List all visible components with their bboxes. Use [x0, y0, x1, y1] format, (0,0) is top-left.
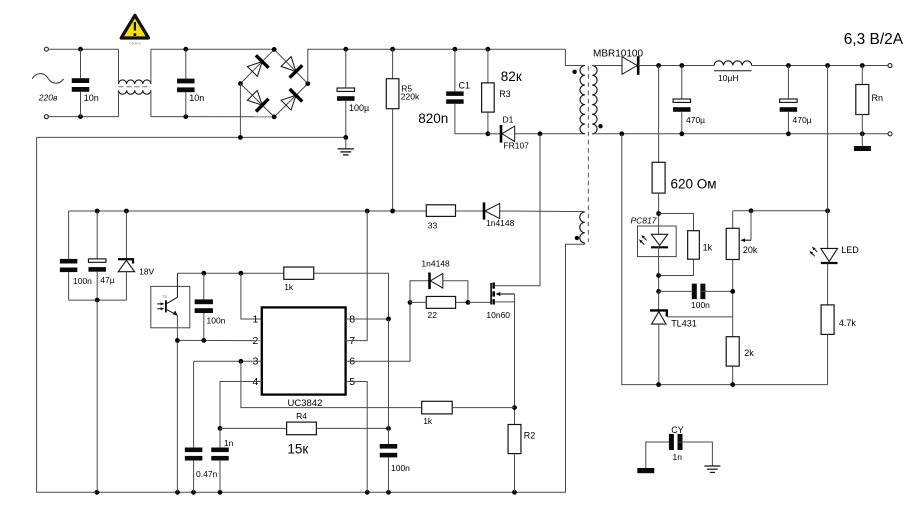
- node bridge left vertex: [238, 81, 243, 86]
- svg-text:1: 1: [252, 313, 258, 325]
- wire 33 to aux diode: [456, 210, 484, 212]
- LED indicator: [821, 248, 838, 261]
- svg-text:100µ: 100µ: [349, 103, 369, 113]
- node drain branch: [538, 131, 543, 136]
- transformer aux phase dot: [575, 236, 579, 240]
- node TL431 cathode / 100n left: [656, 289, 661, 294]
- optocoupler T3 box: [151, 286, 190, 327]
- resistor Rn load: [856, 85, 869, 115]
- resistor 2k: [726, 337, 739, 366]
- wire pin2 line: [177, 339, 261, 341]
- transformer secondary phase dot: [598, 124, 602, 128]
- resistor 1k current sense: [422, 401, 453, 414]
- capacitor 10n input second: [177, 79, 195, 84]
- wire gate lead: [468, 301, 491, 303]
- wire pin4 line: [220, 382, 262, 429]
- node gate network left: [408, 300, 413, 305]
- svg-text:470µ: 470µ: [686, 115, 705, 125]
- wire 620 resistor to opto anode: [658, 193, 660, 234]
- choke core separator dashes: [119, 86, 151, 88]
- capacitor 100n feedback: [692, 284, 697, 300]
- svg-text:C1: C1: [459, 81, 471, 91]
- node C1 snubber top: [453, 47, 458, 52]
- svg-text:1n: 1n: [224, 438, 234, 448]
- wire choke to cap2 top: [151, 48, 274, 50]
- svg-text:0.47n: 0.47n: [196, 469, 218, 479]
- svg-text:R4: R4: [296, 411, 307, 421]
- wire choke bottom-left vertical: [118, 90, 120, 116]
- node gate network right: [466, 300, 471, 305]
- svg-text:1n4148: 1n4148: [421, 259, 450, 269]
- zener diode 18V: [118, 258, 133, 260]
- svg-text:100n: 100n: [391, 463, 410, 473]
- wire zener bottom lead: [125, 272, 127, 300]
- wire vref vertical: [388, 319, 390, 428]
- wire R3 top lead: [487, 49, 489, 83]
- wire output cap2 top lead: [787, 66, 789, 100]
- wire left border and primary ground bottom rail: [37, 137, 585, 492]
- svg-text:Rn: Rn: [872, 93, 884, 103]
- wire CY left lead: [646, 442, 669, 468]
- wire 1k comp to vref corner: [314, 273, 389, 319]
- wire opto LED cathode down: [658, 247, 660, 291]
- node output cap1 top: [679, 63, 684, 68]
- node bottom rail 1n: [218, 490, 223, 495]
- wire TL431 top lead: [658, 291, 660, 309]
- wire 100n left lead: [659, 290, 692, 292]
- wire TL431 ref line: [667, 316, 733, 318]
- resistor R2: [508, 425, 521, 454]
- wire 1n leads: [219, 428, 221, 447]
- node 2k ground: [730, 382, 735, 387]
- node pin2 opto emitter: [175, 338, 180, 343]
- node input cap C top: [78, 47, 83, 52]
- resistor R3 82к: [482, 83, 495, 112]
- resistor 4.7k: [821, 305, 834, 335]
- resistor R5 220k: [386, 79, 399, 109]
- node R4 right junction: [386, 426, 391, 431]
- TL431 shunt regulator: [650, 309, 668, 311]
- node minus rail bulk cap: [343, 135, 348, 140]
- wire bridge right vertex up to plus rail: [308, 49, 566, 83]
- node Rn top: [860, 63, 865, 68]
- wire pin3 to 0.47n: [193, 361, 195, 447]
- svg-text:620 Ом: 620 Ом: [671, 176, 717, 191]
- wire R3 bottom lead: [487, 112, 489, 134]
- capacitor 47µ VCC: [88, 259, 106, 262]
- svg-text:LED: LED: [841, 245, 859, 255]
- svg-text:220в: 220в: [38, 93, 58, 103]
- wire zener top lead: [125, 211, 127, 258]
- node output cap2 top: [786, 63, 791, 68]
- svg-text:1k: 1k: [423, 416, 433, 426]
- wire AC bottom from terminal to choke: [48, 116, 118, 118]
- wire 47µ bottom lead: [96, 272, 98, 300]
- svg-text:FR107: FR107: [503, 141, 529, 151]
- node bridge top vertex: [272, 47, 277, 52]
- node R4 left junction: [218, 426, 223, 431]
- resistor 22 gate: [426, 296, 455, 308]
- svg-text:33: 33: [428, 220, 438, 230]
- wire choke to cap2 bottom: [151, 116, 274, 118]
- wire comp 100n top lead: [203, 273, 205, 299]
- wire gate diode to right branch: [443, 281, 468, 303]
- node bulk cap top: [343, 47, 348, 52]
- svg-text:10n: 10n: [84, 93, 99, 103]
- node output cap2 bottom: [786, 131, 791, 136]
- wire VCC rail horizontal: [69, 210, 427, 212]
- svg-text:TL431: TL431: [671, 318, 697, 328]
- T3 light arrows: [157, 303, 160, 305]
- svg-text:1n4148: 1n4148: [486, 218, 515, 228]
- node VCC 47µ: [95, 209, 100, 214]
- diode MBR10100: [622, 57, 637, 75]
- capacitor 100n comp: [195, 299, 213, 304]
- wire 0.47n bottom lead: [193, 461, 195, 493]
- svg-text:PC817: PC817: [631, 215, 657, 225]
- ground symbol primary: [345, 137, 347, 149]
- node output cap1 bottom: [679, 131, 684, 136]
- wire bridge left vertex down to minus rail: [239, 84, 241, 138]
- svg-text:10µH: 10µH: [718, 73, 739, 83]
- svg-text:T3: T3: [162, 294, 167, 299]
- wire cap2 top lead: [185, 49, 187, 78]
- wire Rn top lead: [861, 66, 863, 85]
- node bottom rail 0.47n: [191, 490, 196, 495]
- wire 100n vref leads: [388, 428, 390, 444]
- LED emission arrows: [815, 249, 818, 252]
- node R3 top: [486, 47, 491, 52]
- wire snubber node to D1: [488, 133, 500, 135]
- svg-text:18V: 18V: [139, 267, 154, 277]
- bridge diode bottom-left: [247, 90, 262, 105]
- svg-text:1k: 1k: [703, 243, 713, 253]
- T3 emitter: [167, 310, 178, 316]
- wire secondary top to MBR diode: [592, 65, 622, 67]
- inductor common-mode choke top winding: [119, 80, 151, 84]
- wire bulk cap top lead: [345, 49, 347, 88]
- wire 1k cs right lead: [452, 407, 514, 409]
- optocoupler PC817 LED box: [638, 226, 677, 257]
- diode 1n4148 aux rectifier: [485, 203, 500, 218]
- wire 1k parallel branch bottom: [659, 259, 694, 275]
- svg-text:47µ: 47µ: [100, 275, 114, 285]
- wire C1 bottom lead to snubber node: [455, 104, 488, 134]
- svg-text:CY: CY: [671, 425, 684, 435]
- diode D1 FR107: [502, 126, 515, 142]
- wire D1 anode to drain node: [515, 133, 585, 135]
- wire R4 line right: [316, 427, 388, 429]
- wire output plus rail left of inductor: [638, 65, 714, 67]
- wire 22 right lead: [456, 301, 468, 303]
- node comp 100n: [201, 271, 206, 276]
- wire 620 branch vertical upper: [658, 66, 660, 163]
- transformer secondary winding: [592, 66, 597, 134]
- svg-text:10n: 10n: [189, 93, 204, 103]
- svg-text:100n: 100n: [207, 316, 226, 326]
- node bottom rail pin5: [365, 490, 370, 495]
- wire source line: [494, 301, 515, 303]
- resistor R4 15к: [287, 422, 317, 435]
- bridge diode top-right: [281, 57, 296, 72]
- svg-text:220k: 220k: [401, 92, 420, 102]
- wire aux winding return: [584, 243, 586, 244]
- node opto anode / 1k branch: [656, 211, 661, 216]
- node vcc ground 47µ: [95, 298, 100, 303]
- node pin2 100n: [201, 338, 206, 343]
- node secondary return branch: [619, 131, 624, 136]
- svg-text:22: 22: [428, 310, 438, 320]
- wire 4.7k bottom lead: [827, 334, 829, 384]
- node minus rail bridge: [238, 135, 243, 140]
- optocoupler PC817 LED: [651, 234, 668, 245]
- wire 2k bottom lead: [732, 366, 734, 385]
- capacitor 100n VCC: [60, 259, 78, 264]
- node opto cathode / 1k bottom: [656, 273, 661, 278]
- svg-text:15к: 15к: [287, 442, 308, 457]
- AC source sine symbol: [32, 74, 63, 84]
- wire pin1 branch down: [241, 273, 262, 319]
- wire pin8 line: [346, 318, 389, 320]
- capacitor 1n timing: [211, 448, 229, 453]
- wire aux diode to aux winding: [500, 210, 585, 213]
- wire 100n VCC bottom lead: [68, 272, 70, 300]
- node VCC R5: [390, 209, 395, 214]
- T3 phototransistor base bar: [165, 300, 167, 312]
- transistor Q1 10n60 gate bar: [490, 283, 492, 305]
- capacitor 100µ bulk electrolytic: [337, 88, 355, 91]
- wire 47µ top lead: [96, 211, 98, 259]
- terminal AC input top: [44, 47, 48, 51]
- wire comp 100n bottom lead: [203, 313, 205, 340]
- capacitor CY 1n: [669, 434, 674, 450]
- svg-text:2k: 2k: [744, 348, 754, 358]
- wire output cap1 top lead: [681, 66, 683, 100]
- node bottom rail opto emitter: [175, 490, 180, 495]
- ground chassis bar CY: [637, 468, 654, 473]
- svg-text:10n60: 10n60: [486, 310, 510, 320]
- wire output cap2 bottom lead: [787, 112, 789, 134]
- wire source vertical to R2: [514, 294, 516, 425]
- potentiometer 20k: [726, 228, 739, 259]
- wire R2 bottom lead: [514, 454, 516, 493]
- wire LED cathode to 4.7k: [827, 263, 829, 305]
- wire feedback ground rail: [622, 134, 828, 385]
- bridge diode top-left: [247, 62, 262, 77]
- svg-text:D1: D1: [503, 115, 514, 125]
- node snubber junction: [486, 131, 491, 136]
- wire LED column upper: [827, 66, 829, 249]
- T3 collector: [167, 273, 178, 303]
- transformer core dashed line: [587, 66, 589, 242]
- terminal output minus: [888, 132, 892, 136]
- node bridge bottom vertex: [272, 115, 277, 120]
- capacitor 10n input first: [72, 78, 90, 83]
- terminal AC input bottom: [44, 115, 48, 119]
- wire choke bottom-right vertical: [150, 90, 152, 116]
- node pot wiper rail: [749, 208, 754, 213]
- svg-text:1n: 1n: [673, 452, 683, 462]
- wire pin3 branch to current sense: [241, 361, 422, 407]
- node 100n right junction: [730, 289, 735, 294]
- node TL431 anode ground: [656, 382, 661, 387]
- wire plus rail corner to primary top: [565, 49, 585, 65]
- Q1 body arrow: [500, 293, 514, 295]
- wire R5 bottom lead to VCC rail: [392, 109, 394, 211]
- wire R5 top lead: [392, 49, 394, 78]
- wire minus rail: [37, 136, 346, 138]
- wire pin3 line: [194, 360, 262, 362]
- svg-text:Caution: Caution: [129, 42, 141, 46]
- svg-text:100n: 100n: [73, 276, 92, 286]
- resistor 620 Ом: [652, 162, 665, 193]
- node VCC pin7 branch: [365, 209, 370, 214]
- svg-text:820n: 820n: [418, 111, 448, 126]
- transistor Q1 channel segments: [492, 283, 495, 289]
- node pin8 vref: [386, 317, 391, 322]
- PC817 LED emission arrows: [644, 238, 647, 241]
- capacitor C1 820n snubber: [446, 91, 464, 96]
- svg-text:6,3 В/2А: 6,3 В/2А: [844, 31, 904, 48]
- diode 1n4148 gate: [431, 274, 443, 289]
- wire cap1 top lead: [80, 49, 82, 78]
- svg-text:1k: 1k: [284, 282, 294, 292]
- wire output plus rail right of inductor: [752, 65, 888, 67]
- wire pot top rail: [733, 210, 828, 212]
- node LED column rail: [825, 208, 830, 213]
- wire C1 top lead: [454, 49, 456, 91]
- node current sense junction: [512, 405, 517, 410]
- wire comp rail: [177, 272, 283, 274]
- node bottom rail R2: [512, 490, 517, 495]
- wire output minus rail: [592, 133, 888, 135]
- resistor 1k opto parallel: [688, 231, 700, 260]
- wire AC top from terminal to choke: [48, 48, 118, 50]
- resistor 1k comp: [284, 267, 314, 279]
- wire 22 left lead: [410, 301, 426, 303]
- ground chassis bar below Rn: [861, 134, 863, 146]
- node pin3 branch: [239, 359, 244, 364]
- transformer aux winding: [580, 212, 585, 243]
- wire choke top-left vertical: [118, 49, 120, 84]
- capacitor 470µ first: [673, 99, 691, 102]
- wire vcc ground down to bottom rail: [96, 300, 98, 492]
- wire vcc ground rail: [69, 299, 127, 301]
- wire 100n right lead: [701, 290, 732, 292]
- node VCC zener: [124, 209, 129, 214]
- wire R4 line left: [220, 427, 287, 429]
- wire 1k parallel branch top: [659, 214, 694, 231]
- wire drain to transformer: [494, 134, 540, 286]
- wire output cap1 bottom lead: [681, 112, 683, 134]
- capacitor 470µ second: [780, 99, 798, 102]
- node comp pin1 branch: [239, 271, 244, 276]
- capacitor 0.47n: [185, 448, 203, 453]
- wire gate diode left branch: [410, 281, 429, 303]
- svg-text:4.7k: 4.7k: [839, 318, 857, 328]
- wire bulk cap bottom lead: [345, 101, 347, 138]
- svg-text:R2: R2: [524, 430, 536, 440]
- inductor common-mode choke bottom winding: [119, 90, 151, 94]
- wire T3 emitter to bottom rail: [176, 340, 178, 492]
- resistor 33 aux: [426, 205, 455, 217]
- svg-text:R3: R3: [499, 89, 511, 99]
- node 620 branch top: [656, 63, 661, 68]
- inductor 10µH: [714, 61, 752, 66]
- node LED branch top: [825, 63, 830, 68]
- wire pin5 line to ground: [346, 382, 368, 493]
- wire VCC rail left segment: [68, 211, 70, 259]
- node bottom rail 100n vref: [386, 490, 391, 495]
- wire cap1 bottom lead: [80, 92, 82, 117]
- svg-text:20k: 20k: [743, 245, 758, 255]
- transformer primary phase dot: [572, 70, 576, 74]
- wire choke top-right vertical: [150, 49, 152, 84]
- node cap2 bottom: [183, 114, 188, 119]
- svg-text:MBR10100: MBR10100: [593, 48, 643, 59]
- node bridge right vertex: [305, 81, 310, 86]
- potentiometer 20k wiper arrow: [745, 239, 751, 241]
- wire pin6 line to gate network: [346, 302, 410, 361]
- warning triangle caution sign: [121, 15, 148, 38]
- ground symbol earth CY: [704, 465, 720, 467]
- wire bridge diamond edges: [240, 49, 307, 117]
- node input cap C bottom: [78, 114, 83, 119]
- wire CY right lead: [679, 442, 713, 466]
- capacitor 100n vref: [380, 444, 398, 449]
- node bottom rail vcc-gnd: [95, 490, 100, 495]
- wire pot bottom to 2k: [732, 260, 734, 337]
- wire pin7 line to VCC: [346, 211, 368, 341]
- transformer primary winding: [580, 66, 585, 134]
- wire pot top lead: [732, 211, 734, 229]
- svg-text:470µ: 470µ: [793, 115, 812, 125]
- node cap2 top: [183, 47, 188, 52]
- svg-text:100n: 100n: [691, 300, 710, 310]
- op-amp U1 UC3842 body: [262, 307, 346, 394]
- node Rn bottom: [860, 131, 865, 136]
- terminal output plus: [888, 64, 892, 68]
- wire cap2 bottom lead: [185, 92, 187, 116]
- bridge diode bottom-right: [281, 95, 296, 110]
- svg-text:82к: 82к: [501, 69, 522, 84]
- wire Rn bottom lead: [861, 115, 863, 134]
- node R5 top: [390, 47, 395, 52]
